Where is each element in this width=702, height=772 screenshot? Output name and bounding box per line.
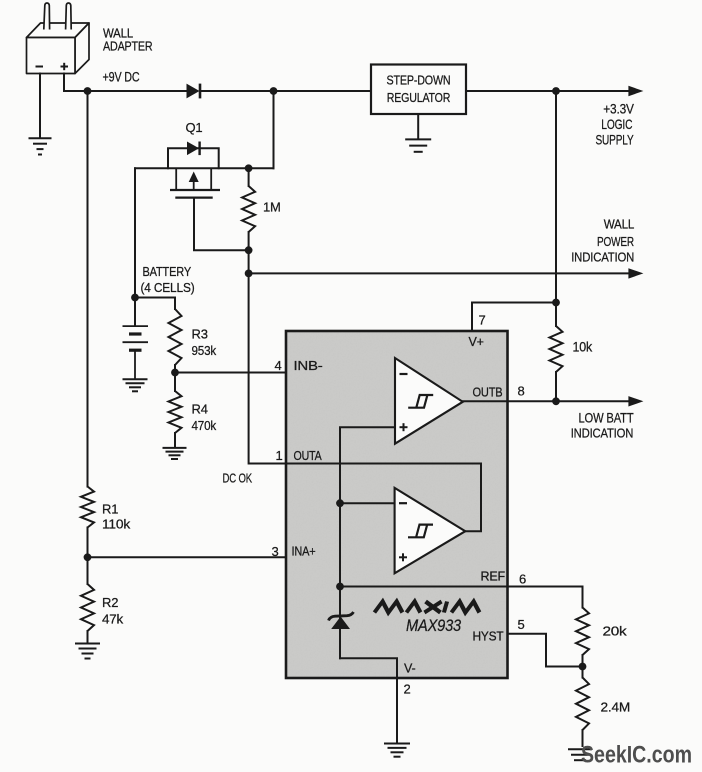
wire OUTA feedback loop xyxy=(286,464,481,532)
wire 2.4M to ground xyxy=(582,730,584,746)
svg-text:LOGIC: LOGIC xyxy=(601,117,632,132)
svg-text:Q1: Q1 xyxy=(186,120,203,135)
junction 20k / 2.4M / HYST xyxy=(579,663,587,671)
wire R2 to ground xyxy=(87,631,89,643)
svg-text:R4: R4 xyxy=(192,402,208,417)
wire battery top lead xyxy=(134,298,136,326)
junction V+ node xyxy=(552,299,560,307)
junction ref rail / REF pin xyxy=(336,583,344,591)
svg-text:MAX933: MAX933 xyxy=(406,617,462,635)
svg-text:V+: V+ xyxy=(469,335,484,349)
adapter plus terminal mark xyxy=(61,63,69,70)
transistor Q1 MOSFET symbol xyxy=(170,168,220,197)
svg-text:4: 4 xyxy=(275,358,282,373)
resistor 2.4M xyxy=(576,678,589,731)
wire adapter minus to ground xyxy=(39,74,41,139)
comparator A minus input mark xyxy=(399,502,407,504)
wire 20k to hyst node xyxy=(582,655,584,667)
svg-text:R3: R3 xyxy=(192,327,208,342)
svg-text:POWER: POWER xyxy=(597,234,634,249)
ground below wall adapter xyxy=(29,138,52,154)
junction 1M bottom / gate xyxy=(245,246,253,254)
junction wall power node xyxy=(245,270,253,278)
junction +9V / R1 branch xyxy=(84,87,92,95)
wire R2 top lead xyxy=(87,557,89,584)
svg-text:INDICATION: INDICATION xyxy=(571,250,634,265)
op-amp comparator B xyxy=(395,358,463,444)
svg-text:ADAPTER: ADAPTER xyxy=(103,39,153,54)
svg-text:47k: 47k xyxy=(102,612,124,627)
arrow wall power indication xyxy=(628,268,643,278)
wire V- pin2 to ground xyxy=(396,678,398,742)
svg-text:INA+: INA+ xyxy=(292,545,316,559)
step-down regulator box U2 xyxy=(371,65,466,115)
svg-text:5: 5 xyxy=(518,617,525,632)
wire 1M top lead xyxy=(248,168,250,186)
MAXIM logo xyxy=(374,602,480,613)
wire Q1 body-diode loop xyxy=(168,148,219,168)
svg-text:BATTERY: BATTERY xyxy=(143,264,192,279)
wire R4 top lead xyxy=(174,373,176,392)
wire regulator to 3.3V arrow xyxy=(466,90,629,92)
adapter minus terminal mark xyxy=(36,66,44,68)
wire rail branch down to Q1 drain xyxy=(273,91,275,168)
ground below V- xyxy=(384,744,410,757)
wire rail to battery top xyxy=(134,168,136,297)
svg-text:R2: R2 xyxy=(102,595,118,610)
wire R4 to ground xyxy=(174,433,176,448)
svg-text:1: 1 xyxy=(276,448,283,463)
junction battery / R3 xyxy=(131,294,139,302)
arrow +3.3V logic supply xyxy=(628,86,643,96)
wire diode to regulator xyxy=(200,90,371,92)
svg-text:REGULATOR: REGULATOR xyxy=(387,90,451,105)
wall adapter prong left xyxy=(44,3,50,30)
comparator B plus input mark xyxy=(400,423,408,431)
svg-text:20k: 20k xyxy=(603,624,628,639)
svg-text:+3.3V: +3.3V xyxy=(603,102,634,117)
svg-text:(4 CELLS): (4 CELLS) xyxy=(141,280,195,295)
svg-text:953k: 953k xyxy=(192,343,217,358)
ground below R2 xyxy=(75,644,100,659)
ground below regulator xyxy=(405,139,431,151)
svg-text:REF: REF xyxy=(481,570,506,584)
svg-text:LOW BATT: LOW BATT xyxy=(579,410,635,425)
comparator B minus input mark xyxy=(400,373,408,375)
ground below 2.4M xyxy=(568,749,592,760)
svg-text:R1: R1 xyxy=(102,502,118,517)
resistor 20k xyxy=(576,608,589,656)
resistor R3 xyxy=(169,309,182,365)
resistor 10k xyxy=(550,326,563,372)
comparator A hysteresis glyph xyxy=(408,525,433,538)
wire REF pin6 to 20k xyxy=(340,587,583,608)
wire INB- to comparator B xyxy=(175,372,395,374)
wire Q1 source-drain rail xyxy=(135,167,274,169)
junction 3.3V rail / 10k branch xyxy=(552,87,560,95)
wire OUTB output xyxy=(463,400,629,402)
svg-text:OUTA: OUTA xyxy=(294,449,323,463)
svg-text:WALL: WALL xyxy=(604,217,635,232)
wire DC OK node to pin1 OUTA xyxy=(249,273,286,463)
svg-text:SeekIC.com: SeekIC.com xyxy=(581,742,692,769)
svg-text:1M: 1M xyxy=(263,200,281,215)
junction R3/R4 INB- node xyxy=(171,369,179,377)
svg-text:2: 2 xyxy=(404,682,411,697)
battery B1 (4 cells) xyxy=(123,326,149,379)
zener diode reference xyxy=(329,612,354,629)
junction Q1 drain / 1M top xyxy=(245,164,253,172)
svg-text:STEP-DOWN: STEP-DOWN xyxy=(387,73,451,88)
wire ref rail to V- pin2 xyxy=(340,658,397,678)
svg-text:2.4M: 2.4M xyxy=(601,700,631,715)
svg-text:3: 3 xyxy=(272,544,279,559)
arrow low batt indication xyxy=(628,396,643,406)
wire wall power indication xyxy=(249,272,629,274)
svg-text:INB-: INB- xyxy=(294,359,323,373)
svg-text:+9V DC: +9V DC xyxy=(103,70,140,85)
ground below battery xyxy=(123,379,148,391)
wire 1M bottom lead xyxy=(248,232,250,250)
wall adapter prong right xyxy=(66,3,72,30)
diode D1 on +9V rail xyxy=(187,84,201,99)
wire comp A minus input xyxy=(340,502,395,504)
svg-text:OUTB: OUTB xyxy=(473,386,503,400)
svg-text:INDICATION: INDICATION xyxy=(571,425,634,440)
comparator A plus input mark xyxy=(399,553,407,561)
wire 3.3V rail down to V+ node xyxy=(555,91,557,303)
wire INA+ to comparator A xyxy=(88,556,395,558)
wire HYST pin5 xyxy=(508,634,583,667)
resistor 1M xyxy=(242,186,255,232)
svg-text:V-: V- xyxy=(404,662,415,676)
junction R1/R2 INA+ node xyxy=(84,553,92,561)
junction OUTB node xyxy=(552,397,560,405)
wire V+ node to 10k xyxy=(555,303,557,327)
ground below R4 xyxy=(163,448,187,459)
svg-text:SUPPLY: SUPPLY xyxy=(596,133,634,148)
svg-text:HYST: HYST xyxy=(473,630,505,644)
op-amp U1 MAX933 package body xyxy=(286,331,508,678)
junction rail / Q1 drain branch xyxy=(270,87,278,95)
wire R3 to INB- node xyxy=(174,365,176,373)
op-amp comparator A xyxy=(395,488,466,573)
svg-text:8: 8 xyxy=(518,384,525,399)
svg-text:7: 7 xyxy=(479,313,486,328)
wire 2.4M top lead xyxy=(582,667,584,678)
wire R1 to INA+ node xyxy=(87,528,89,558)
Q1 body diode symbol xyxy=(187,142,200,156)
wire V+ node to pin7 xyxy=(472,303,556,332)
wire battery node to R3 top xyxy=(135,298,175,310)
wall adapter body xyxy=(27,23,90,74)
wire Q1 gate to 1M bottom xyxy=(194,198,249,251)
wire regulator to ground xyxy=(417,114,419,139)
comparator B hysteresis glyph xyxy=(408,395,433,408)
svg-text:110k: 110k xyxy=(102,517,131,532)
resistor R2 xyxy=(81,584,94,631)
wire +9V down to R1 xyxy=(87,91,89,487)
svg-text:6: 6 xyxy=(519,572,526,587)
svg-text:470k: 470k xyxy=(192,418,217,433)
resistor R1 xyxy=(81,487,94,528)
wire adapter plus to +9V rail xyxy=(64,74,187,92)
svg-text:DC OK: DC OK xyxy=(223,471,253,486)
wire comparator B plus to ref rail xyxy=(340,427,395,658)
junction ref rail / comp A minus xyxy=(336,499,344,507)
wire 10k to OUTB node xyxy=(555,372,557,401)
wire gate node down to wall-power node xyxy=(248,250,250,273)
resistor R4 xyxy=(169,391,182,433)
svg-text:10k: 10k xyxy=(573,340,593,355)
